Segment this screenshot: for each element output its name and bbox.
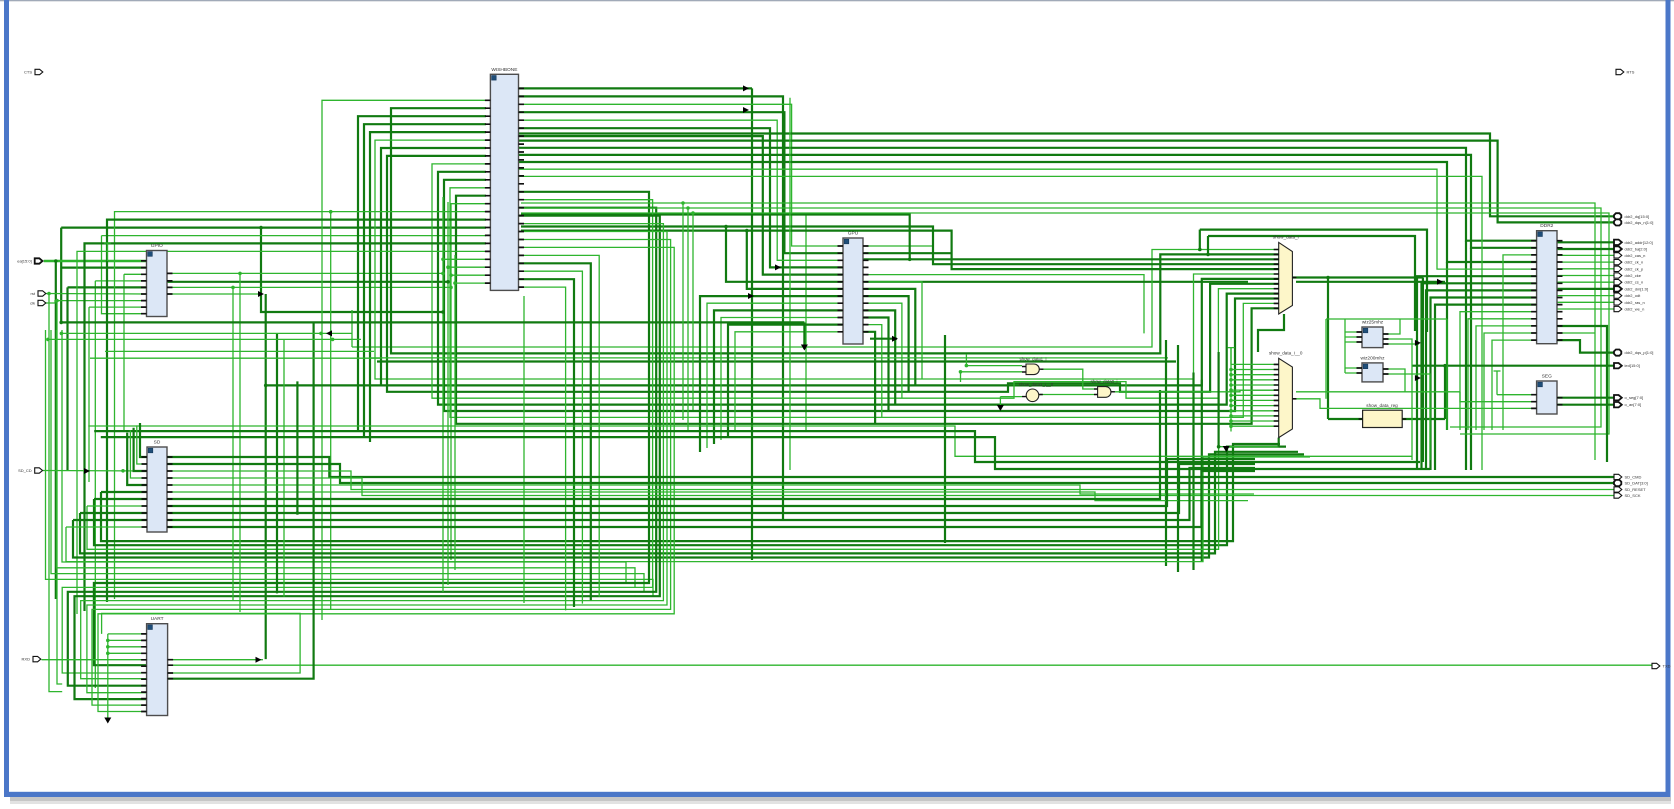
net ddr2 out 276 <box>1557 275 1615 277</box>
block GPIO <box>141 243 173 317</box>
net and1 in2 drop <box>960 372 962 382</box>
svg-text:UART: UART <box>151 616 164 622</box>
net band ext5 <box>90 357 380 359</box>
svg-text:clk: clk <box>30 301 35 306</box>
svg-text:SEG: SEG <box>1542 374 1552 380</box>
net sd r lower 1 <box>167 464 1255 513</box>
net bus loop 1 <box>391 108 1279 353</box>
net mux2 tail <box>1278 438 1280 447</box>
net bus loop 9 <box>438 172 1279 405</box>
port o_seg[7:0] <box>1614 395 1643 400</box>
net gpu right 5 <box>863 282 922 379</box>
net ddr2 r12 <box>1557 326 1607 462</box>
net gpio pin5 drop <box>66 287 68 470</box>
port ddr2_dqs_p[1:0] <box>1614 350 1653 356</box>
svg-text:ddr2_dqs_n[1:0]: ddr2_dqs_n[1:0] <box>1625 220 1654 225</box>
svg-text:SD_CMD: SD_CMD <box>1625 475 1642 480</box>
net and2 const <box>999 397 1001 410</box>
net sd r lower 0 <box>167 459 1255 506</box>
svg-text:SD_RESET: SD_RESET <box>1625 487 1647 492</box>
net mid vert 2 <box>1177 345 1179 572</box>
net wb pin22 stub <box>451 274 486 276</box>
svg-text:TXD: TXD <box>1663 664 1671 669</box>
net reg up <box>1444 366 1446 419</box>
net wb to gpu 6 <box>518 136 843 275</box>
svg-text:show_data0_i: show_data0_i <box>1090 379 1117 384</box>
gate show_data1_i <box>1019 357 1046 375</box>
net SD_CMD <box>167 457 1615 477</box>
net wb long light drop <box>518 176 1482 470</box>
net wb pin13 drop <box>451 204 486 560</box>
net left light loop 20 <box>62 330 626 583</box>
net gpu box left drop <box>1199 230 1201 250</box>
port o_an[7:0] <box>1614 402 1641 407</box>
net sd left pin 0 <box>101 491 147 493</box>
net ddr2 left l3 <box>1484 333 1537 430</box>
svg-text:led[15:0]: led[15:0] <box>1625 363 1640 368</box>
net sd band 0 <box>101 444 1280 541</box>
net mux2 pin 5 <box>1231 389 1279 391</box>
net left light loop 23 <box>46 330 654 596</box>
net sd left up 1 <box>137 425 147 464</box>
net ddr2 left d0 <box>1417 276 1537 470</box>
net o_an <box>1557 404 1615 406</box>
net mux2 pin 6 <box>1231 394 1279 396</box>
net corridor fill1 <box>442 197 444 592</box>
net wb to gpu 4 <box>518 120 843 260</box>
net gpu left low 4 <box>728 325 843 436</box>
block WISHBONE <box>485 67 524 291</box>
net mux2 pin 4 <box>1231 384 1279 386</box>
net ddr2 left d1 <box>1422 283 1537 470</box>
net bus loop 4 west drop <box>370 132 486 442</box>
svg-text:GPU: GPU <box>848 231 859 237</box>
net mux1 out east <box>1328 276 1423 278</box>
net wiz200 out2 <box>1383 374 1430 460</box>
net wb right low 2 <box>518 271 582 603</box>
net ddr2_dqs_n <box>518 141 1615 223</box>
frame left bar <box>4 0 9 797</box>
net gpio pin3 <box>124 273 147 275</box>
block wiz25mhz <box>1357 320 1389 348</box>
net gpio pin8 drop <box>88 307 90 482</box>
svg-text:GPIO: GPIO <box>151 243 163 249</box>
svg-text:ddr2_dq[15:0]: ddr2_dq[15:0] <box>1625 214 1650 219</box>
net and2 in <box>1000 396 1022 398</box>
net gpio R1 <box>167 272 443 274</box>
bus ea to GPIO <box>44 260 147 262</box>
net mid vert 3 <box>1192 373 1194 571</box>
port clk <box>30 300 46 305</box>
port TXD <box>1652 663 1671 668</box>
svg-text:ddr2_we_n: ddr2_we_n <box>1625 307 1645 312</box>
net band ext1 tail <box>803 322 805 349</box>
net wb to uart 1 <box>62 200 652 673</box>
net mux1 bottom tail <box>1258 314 1284 352</box>
net uart R1 <box>168 659 263 661</box>
net gpu left row6 <box>747 231 843 289</box>
svg-text:ddr2_ba[2:0]: ddr2_ba[2:0] <box>1625 247 1647 252</box>
net band i6 west ext <box>266 384 381 386</box>
net mid drop 240 <box>239 273 241 612</box>
net gpu left low 1 <box>707 303 843 448</box>
net bus loop 2 <box>521 215 1279 260</box>
net clk drop to UART <box>57 301 62 684</box>
svg-text:o_seg[7:0]: o_seg[7:0] <box>1625 395 1644 400</box>
net wb left drop 18 <box>85 243 487 611</box>
net wb to gpu 5 <box>518 128 843 267</box>
net bus loop 12 <box>456 196 1279 424</box>
svg-text:ddr2_ck_p: ddr2_ck_p <box>1625 266 1644 271</box>
net wiz25 out1 <box>1383 319 1400 334</box>
net band ext3 <box>48 338 361 340</box>
net bus loop 4 <box>521 231 1279 270</box>
net gpu right 10 <box>863 318 889 412</box>
net wiz box top <box>1326 318 1447 320</box>
net uart R3 box <box>102 613 301 673</box>
net wb pin20 stub <box>443 258 486 260</box>
net vert 806 <box>805 215 807 431</box>
net bus loop 6 <box>381 148 1279 385</box>
net light long3 drop <box>692 213 694 410</box>
block UART <box>141 616 173 715</box>
net band filler2 <box>377 360 1176 362</box>
net ddr2 out 302 <box>1557 301 1615 303</box>
port ddr2_addr[12:0] <box>1614 240 1653 245</box>
net sd left up 4 <box>127 433 147 485</box>
net ddr2 out 255 <box>1557 254 1615 256</box>
net gpio pin4 <box>95 280 146 282</box>
block SD <box>142 440 173 533</box>
net ddr2 left l2 <box>1476 326 1537 430</box>
net wb to uart 6 <box>92 240 671 706</box>
svg-text:SD: SD <box>154 440 161 446</box>
net corridor fill3 <box>523 296 525 603</box>
net left light loop 22 <box>51 330 644 592</box>
schematic frame <box>0 0 1674 2</box>
net ddr2 out 309 <box>1557 308 1615 310</box>
port rst <box>31 291 46 296</box>
port ddr2_dqs_n[1:0] <box>1614 219 1653 225</box>
net ddr2_dqs_p <box>1557 340 1615 353</box>
net gpio R4 <box>167 293 262 295</box>
net sd r4 <box>167 485 1254 494</box>
frame shadow <box>10 797 1671 801</box>
net gpu right 6 <box>863 289 915 386</box>
net wb pin23 stub <box>455 282 486 284</box>
net wb ddr2 a ext <box>1465 241 1467 470</box>
net and3 out <box>1111 390 1279 392</box>
net bus loop 2 west drop <box>358 116 486 430</box>
svg-text:RXD: RXD <box>22 657 31 662</box>
net light long2 drop <box>687 208 689 430</box>
register show_data_reg <box>1359 403 1407 428</box>
block DDR2 <box>1531 223 1562 344</box>
net dark corner 261 <box>261 228 443 312</box>
net mux top deco <box>1208 236 1415 331</box>
net mux2 pin 7 <box>1231 399 1279 401</box>
net mid vert 1 <box>1165 340 1167 566</box>
gate show_data1_i__0 <box>1019 382 1054 402</box>
net wb to uart 7 <box>98 247 674 711</box>
net reg in <box>1328 418 1363 420</box>
net bus loop 8 <box>432 164 1279 398</box>
port ddr2_ba[2:0] <box>1614 246 1647 251</box>
net wiz25 in 337 <box>1345 336 1362 338</box>
net uart fan pin 2 <box>108 646 147 648</box>
net sd r6 up <box>167 390 1160 499</box>
net sd box1 long <box>88 426 1412 456</box>
port SD_RESET <box>1614 487 1646 492</box>
net bus loop 10 <box>444 180 1279 411</box>
net wiz25 in 332 <box>1345 331 1362 333</box>
net sd left pin 4 <box>73 519 147 521</box>
net wiz25 in vertical <box>1344 319 1346 342</box>
svg-text:ddr2_addr[12:0]: ddr2_addr[12:0] <box>1625 240 1653 245</box>
net light long3 <box>521 213 1609 434</box>
svg-text:ddr2_dm[1:0]: ddr2_dm[1:0] <box>1625 286 1649 291</box>
net mid vert 297 <box>296 381 298 513</box>
port ddr2_cs_n <box>1614 280 1643 285</box>
net sd box2 long <box>94 431 1420 462</box>
net mux2 pin 12 <box>1231 425 1279 427</box>
net sd left up 3 <box>130 430 147 478</box>
net reg out <box>1402 418 1445 420</box>
net ddr2 r13 <box>1557 332 1595 334</box>
net gpu left low 0 <box>700 296 843 452</box>
net rst drop <box>49 294 62 692</box>
net led long <box>1412 365 1615 367</box>
net o_seg <box>1557 397 1615 399</box>
constant tie bars <box>104 243 111 261</box>
svg-text:ddr2_ck_n: ddr2_ck_n <box>1625 260 1644 265</box>
gate show_data0_i <box>1090 379 1117 397</box>
port SD_DAT[3:0] <box>1614 480 1648 486</box>
net sd band 1 <box>94 447 1286 546</box>
net gpu right 12 <box>863 332 875 424</box>
net mux top deco drop <box>1207 236 1209 254</box>
net wb to uart 2 <box>68 208 656 686</box>
net sd r lower 2 <box>167 468 1255 520</box>
net stub arrow <box>1225 447 1227 450</box>
net gpio_box1 to WB pin16 <box>61 227 486 229</box>
net uart R4 up <box>168 322 314 678</box>
net mux2 pin 11 <box>1231 420 1279 422</box>
net ddr2 left d4 <box>1435 305 1537 470</box>
port ddr2_ck_p <box>1614 266 1644 271</box>
net gpu right 0 <box>863 245 933 247</box>
svg-text:show_data1_i__0: show_data1_i__0 <box>1019 382 1054 387</box>
net wiz box right <box>1446 319 1448 430</box>
net seg in1 <box>1497 394 1537 396</box>
net wb to uart 0 <box>94 192 649 665</box>
net left light loop 21 <box>57 330 636 587</box>
svg-text:ddr2_cke: ddr2_cke <box>1625 273 1642 278</box>
net sd_cd <box>42 470 148 473</box>
net gpio pin4 drop <box>94 281 96 688</box>
port SD_CD <box>18 468 42 473</box>
net wiz25 in 342 <box>1345 341 1362 343</box>
svg-text:SD_SCK: SD_SCK <box>1625 493 1641 498</box>
net ddr2 left d3 <box>1431 298 1537 471</box>
net and1 in1 <box>966 354 1022 366</box>
svg-text:ddr2_ras_n: ddr2_ras_n <box>1625 300 1645 305</box>
net light long2 <box>521 208 1601 427</box>
net rxd vertical <box>265 294 267 659</box>
net txd long <box>168 664 1653 666</box>
port ddr2_dm[1:0] <box>1614 286 1648 291</box>
net wb R1 <box>518 96 783 520</box>
net mux2 pin 2 <box>1231 374 1279 376</box>
net mux1 out <box>1292 278 1328 420</box>
net bus loop 11 <box>450 188 1279 418</box>
net mux2 pin 8 <box>1231 405 1279 407</box>
net gpio_box2 to WB pin17 <box>102 235 487 237</box>
net seg feed east <box>1296 391 1460 393</box>
port SD_CMD <box>1614 474 1642 479</box>
net bus loop 5 <box>375 140 1279 379</box>
net sd left pin 1 <box>94 498 147 500</box>
net rxd in <box>42 659 147 661</box>
net band ext2 <box>61 332 352 334</box>
net mux2 const vertical <box>1230 348 1232 432</box>
net wiz200 in 373 <box>1345 372 1362 374</box>
net wb to gpu 2 <box>518 104 843 246</box>
net band ext1 <box>61 321 804 323</box>
net gpu right 2 <box>863 258 910 260</box>
svg-text:ddr2_cas_n: ddr2_cas_n <box>1625 253 1646 258</box>
port SD_SCK <box>1614 493 1641 498</box>
net corridor fill2 <box>447 202 449 585</box>
port ddr2_ras_n <box>1614 300 1645 305</box>
net ddr2_dq <box>518 134 1615 217</box>
net band0 west hook <box>351 310 353 347</box>
net mux2 big vertical <box>1217 352 1219 447</box>
svg-text:show_data_i: show_data_i <box>1273 234 1299 239</box>
svg-text:ddr2_odt: ddr2_odt <box>1625 293 1642 298</box>
net gpio pin2 <box>61 267 146 269</box>
net band filler1 <box>370 357 1168 359</box>
block wiz200mhz <box>1357 355 1389 382</box>
net uart fan pin 0 <box>108 633 147 635</box>
net sd box3 long <box>101 437 1430 469</box>
net ddr2 left l4 <box>1492 340 1537 430</box>
net gpu box top <box>1200 230 1427 332</box>
net gpu right 7 <box>863 296 909 392</box>
port led[15:0] <box>1614 363 1640 368</box>
net to mux2 bottom <box>87 447 1279 550</box>
svg-text:show_data_reg: show_data_reg <box>1366 403 1398 408</box>
net wiz box left <box>1325 319 1327 399</box>
svg-text:ddr2_cs_n: ddr2_cs_n <box>1625 280 1644 285</box>
net ddr2 out 249 <box>1557 248 1615 250</box>
net wiz25 out3 <box>1383 343 1419 345</box>
net ddr2 left d2 <box>1426 290 1537 470</box>
net and1 in2 <box>961 371 1023 373</box>
net sd band 3 <box>80 452 1298 554</box>
net gpu right 11 <box>863 325 882 418</box>
net ea col drop <box>55 261 57 599</box>
net ddr2 out 296 <box>1557 295 1615 297</box>
frame bottom bar <box>4 792 1671 797</box>
port ddr2_ck_n <box>1614 259 1643 264</box>
net wb left drop 14 <box>115 212 487 599</box>
svg-text:show_data1_i: show_data1_i <box>1019 357 1046 362</box>
svg-text:SD_DAT[3:0]: SD_DAT[3:0] <box>1625 481 1648 486</box>
net ddr2 out 262 <box>1557 261 1615 263</box>
net gpio pin9 <box>102 236 147 314</box>
net gpu right 9 <box>863 310 895 404</box>
net ddr2 left l1 <box>1468 319 1537 430</box>
net mid vert 945 <box>944 335 946 543</box>
net gpio pin5 <box>68 286 147 288</box>
net mid drop 233 <box>232 287 234 600</box>
net wb left drop 19 <box>77 251 486 614</box>
net gpio pin8 <box>89 306 147 308</box>
frame right bar <box>1666 0 1671 797</box>
net seg in3 <box>1292 399 1536 409</box>
net uart fan vertical <box>107 634 109 722</box>
net uart fan pin 1 <box>108 639 147 641</box>
direction arrows <box>1437 279 1443 285</box>
net wiz200 in 368 <box>1345 367 1362 369</box>
svg-text:ea[15:0]: ea[15:0] <box>17 259 31 264</box>
net mux2 pin 9 <box>1231 410 1279 412</box>
net gpu left low 5 <box>735 332 843 432</box>
net wb to uart 5 <box>87 232 667 693</box>
net wb ddr2 c ext <box>1446 262 1448 430</box>
net mid vert 4 <box>1201 380 1203 562</box>
block SEG <box>1531 374 1562 415</box>
junction dots <box>259 226 263 230</box>
net light long1 drop <box>682 203 684 420</box>
net wb ddr2 c <box>518 162 1537 262</box>
net wiz200 out1 <box>1383 369 1405 392</box>
net vert 790 <box>789 98 791 470</box>
svg-text:CTS: CTS <box>24 70 32 75</box>
net clk <box>42 301 147 303</box>
net sd left up 0 <box>140 423 147 457</box>
net wb pin21 stub <box>448 266 486 268</box>
svg-text:SD_CD: SD_CD <box>18 468 32 473</box>
net ddr2 left pin2 <box>1503 255 1537 430</box>
net mid left vert1 <box>276 333 278 593</box>
svg-text:wiz25mhz: wiz25mhz <box>1362 320 1384 326</box>
svg-text:RTS: RTS <box>1627 70 1635 75</box>
net vert 1422 <box>1422 278 1424 463</box>
net wiz200 in vertical <box>1344 342 1346 373</box>
block GPU <box>838 231 869 345</box>
port RXD <box>22 656 41 661</box>
net wb to uart 3 <box>75 216 660 699</box>
net wb right low 3 <box>518 279 574 607</box>
port ea[15:0] <box>17 258 42 263</box>
net wb ddr2 a <box>518 148 1537 241</box>
net wb ddr2 d <box>518 169 1537 269</box>
net mid left vert2 <box>283 339 285 596</box>
net sd r lower 3 <box>167 471 1255 527</box>
port ddr2_cke <box>1614 273 1642 278</box>
net wb to uart 4 <box>81 224 664 679</box>
net gpu row5 east2 <box>1296 281 1445 283</box>
net wb right low 0 <box>518 255 599 596</box>
net rst <box>42 293 147 296</box>
net wb to gpu 3 <box>518 112 843 253</box>
port ddr2_dq[15:0] <box>1614 213 1649 219</box>
net gpu left row5 <box>726 227 843 282</box>
net seg in2 <box>1460 392 1537 402</box>
net wb right low 1 <box>518 263 591 600</box>
